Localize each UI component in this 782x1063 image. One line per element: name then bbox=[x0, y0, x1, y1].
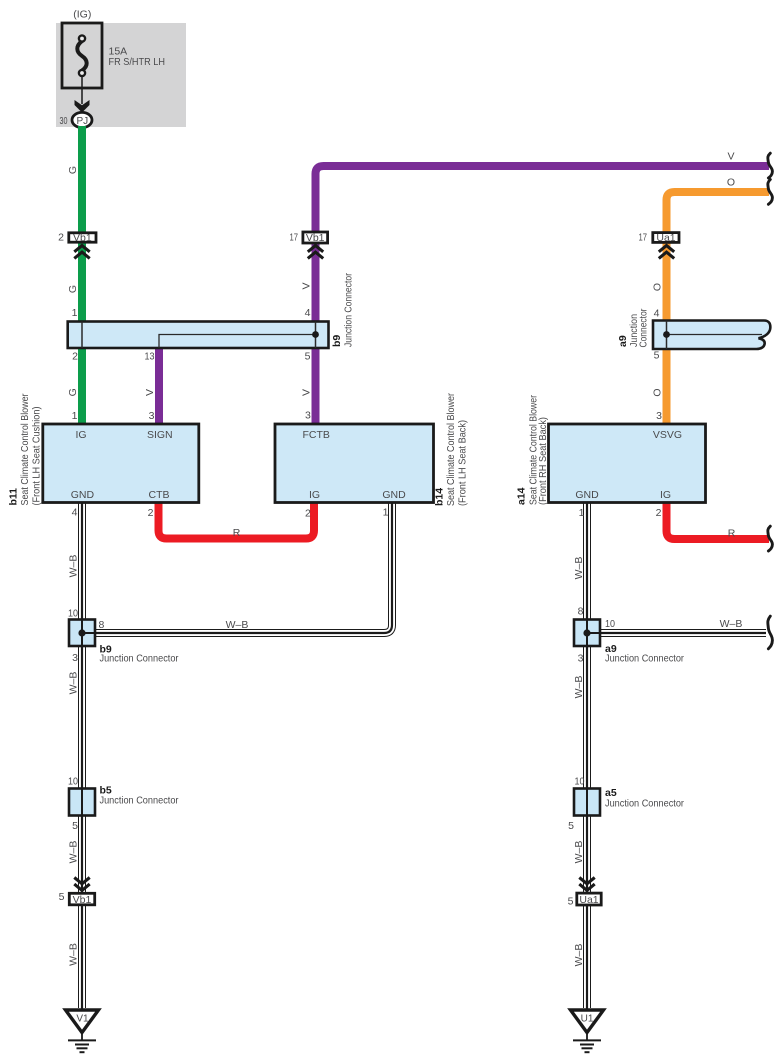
svg-text:5: 5 bbox=[305, 351, 311, 363]
svg-text:4: 4 bbox=[72, 507, 78, 519]
svg-text:Vb1: Vb1 bbox=[306, 232, 325, 244]
svg-text:W–B: W–B bbox=[573, 841, 585, 864]
svg-text:Ua1: Ua1 bbox=[579, 894, 598, 906]
svg-text:W–B: W–B bbox=[720, 618, 743, 630]
svg-text:G: G bbox=[67, 285, 79, 293]
svg-text:1: 1 bbox=[72, 410, 78, 422]
svg-text:IG: IG bbox=[309, 489, 320, 501]
svg-text:R: R bbox=[728, 528, 736, 540]
svg-text:(Front RH Seat Back): (Front RH Seat Back) bbox=[537, 417, 549, 505]
svg-text:b9: b9 bbox=[331, 335, 343, 347]
svg-text:5: 5 bbox=[568, 896, 574, 908]
svg-text:Seat Climate Control Blower: Seat Climate Control Blower bbox=[19, 393, 31, 505]
svg-text:10: 10 bbox=[68, 776, 78, 788]
svg-text:GND: GND bbox=[575, 489, 599, 501]
svg-text:Vb1: Vb1 bbox=[73, 232, 92, 244]
svg-text:Junction Connector: Junction Connector bbox=[100, 653, 179, 665]
svg-text:5: 5 bbox=[59, 891, 65, 903]
svg-text:G: G bbox=[67, 388, 79, 396]
svg-text:W–B: W–B bbox=[68, 555, 80, 578]
svg-text:1: 1 bbox=[383, 507, 389, 519]
svg-text:13: 13 bbox=[145, 351, 155, 363]
svg-text:(Front LH Seat Cushion): (Front LH Seat Cushion) bbox=[31, 407, 43, 506]
svg-text:W–B: W–B bbox=[226, 619, 249, 631]
svg-text:30: 30 bbox=[60, 115, 68, 127]
svg-text:W–B: W–B bbox=[573, 557, 585, 580]
svg-text:W–B: W–B bbox=[68, 943, 80, 966]
svg-text:4: 4 bbox=[654, 308, 660, 320]
svg-text:a14: a14 bbox=[516, 487, 528, 505]
svg-text:3: 3 bbox=[656, 410, 662, 422]
svg-text:3: 3 bbox=[149, 410, 155, 422]
svg-text:Junction Connector: Junction Connector bbox=[605, 653, 684, 665]
svg-text:O: O bbox=[727, 177, 735, 189]
svg-text:8: 8 bbox=[99, 619, 105, 631]
svg-text:GND: GND bbox=[71, 489, 95, 501]
svg-text:2: 2 bbox=[305, 508, 311, 520]
svg-text:FR S/HTR LH: FR S/HTR LH bbox=[109, 56, 166, 68]
svg-text:O: O bbox=[651, 283, 663, 291]
svg-text:2: 2 bbox=[72, 351, 78, 363]
svg-text:2: 2 bbox=[58, 232, 64, 244]
svg-text:2: 2 bbox=[656, 507, 662, 519]
svg-text:Connector: Connector bbox=[638, 308, 650, 347]
svg-text:VSVG: VSVG bbox=[653, 429, 682, 441]
svg-text:5: 5 bbox=[568, 820, 574, 832]
svg-text:V: V bbox=[727, 150, 734, 162]
svg-text:W–B: W–B bbox=[68, 841, 80, 864]
svg-text:Junction Connector: Junction Connector bbox=[605, 798, 684, 810]
svg-text:Junction Connector: Junction Connector bbox=[100, 795, 179, 807]
svg-text:10: 10 bbox=[605, 618, 615, 630]
svg-text:Junction Connector: Junction Connector bbox=[343, 273, 355, 347]
svg-text:1: 1 bbox=[72, 307, 78, 319]
svg-text:10: 10 bbox=[575, 776, 585, 788]
svg-text:V: V bbox=[144, 389, 156, 396]
svg-text:PJ: PJ bbox=[76, 116, 88, 127]
svg-text:10: 10 bbox=[68, 608, 78, 620]
svg-text:b14: b14 bbox=[434, 488, 446, 506]
svg-text:3: 3 bbox=[305, 410, 311, 422]
svg-text:8: 8 bbox=[578, 606, 584, 618]
svg-text:Vb1: Vb1 bbox=[73, 894, 92, 906]
svg-text:FCTB: FCTB bbox=[302, 429, 329, 441]
svg-text:Seat Climate Control Blower: Seat Climate Control Blower bbox=[445, 393, 457, 506]
svg-text:IG: IG bbox=[660, 489, 671, 501]
svg-text:(IG): (IG) bbox=[73, 9, 91, 21]
svg-text:CTB: CTB bbox=[149, 489, 170, 501]
svg-text:3: 3 bbox=[72, 652, 78, 664]
svg-text:W–B: W–B bbox=[573, 944, 585, 967]
svg-text:R: R bbox=[233, 527, 241, 539]
svg-text:V1: V1 bbox=[76, 1014, 89, 1025]
svg-text:17: 17 bbox=[290, 232, 299, 244]
svg-text:(Front LH Seat Back): (Front LH Seat Back) bbox=[457, 420, 469, 506]
svg-text:W–B: W–B bbox=[573, 676, 585, 699]
svg-text:V: V bbox=[300, 282, 312, 289]
svg-text:4: 4 bbox=[305, 307, 311, 319]
svg-text:SIGN: SIGN bbox=[147, 429, 173, 441]
svg-text:Ua1: Ua1 bbox=[656, 232, 675, 244]
svg-text:b11: b11 bbox=[8, 488, 20, 506]
svg-text:2: 2 bbox=[148, 507, 154, 519]
svg-text:1: 1 bbox=[579, 507, 585, 519]
svg-text:5: 5 bbox=[654, 350, 660, 362]
svg-text:GND: GND bbox=[382, 489, 406, 501]
svg-text:IG: IG bbox=[75, 429, 86, 441]
svg-text:O: O bbox=[651, 388, 663, 396]
svg-text:3: 3 bbox=[578, 653, 584, 665]
svg-text:G: G bbox=[67, 166, 79, 174]
svg-text:U1: U1 bbox=[581, 1014, 594, 1025]
svg-text:5: 5 bbox=[72, 820, 78, 832]
svg-text:V: V bbox=[300, 389, 312, 396]
svg-text:W–B: W–B bbox=[68, 672, 80, 695]
svg-text:17: 17 bbox=[639, 232, 648, 244]
